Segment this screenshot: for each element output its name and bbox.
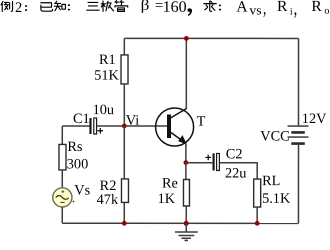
node R2 bottom junction [122, 221, 127, 226]
wire emitter to junction [185, 144, 187, 163]
svg-text:5.1K: 5.1K [262, 191, 291, 207]
svg-text:22u: 22u [225, 166, 246, 182]
svg-text:10u: 10u [93, 102, 114, 118]
wire VCC branch top [297, 38, 299, 125]
svg-text:160: 160 [163, 0, 187, 16]
svg-text:Re: Re [162, 175, 178, 191]
resistor R1 [121, 55, 128, 84]
svg-text:47k: 47k [97, 192, 119, 208]
wire base [124, 125, 167, 127]
title comma 1 [187, 8, 192, 16]
wire RL bottom [256, 207, 258, 223]
svg-text:T: T [197, 114, 206, 130]
node top junction [184, 36, 189, 41]
label C2 plus sign [205, 155, 211, 161]
wire Re bottom [185, 206, 187, 223]
node emitter junction [183, 160, 188, 165]
wire R1 branch top [123, 38, 125, 55]
capacitor C2 [214, 153, 220, 170]
capacitor C1 [90, 118, 96, 134]
wire R1 to Vi node [123, 84, 125, 126]
svg-text:2: 2 [15, 0, 22, 16]
svg-text:R: R [277, 0, 288, 15]
wire Re branch top [185, 163, 187, 180]
svg-text:R: R [311, 0, 322, 15]
title char 极 [101, 1, 113, 11]
title char 管 [115, 1, 128, 12]
svg-text:C1: C1 [73, 111, 90, 127]
wire bottom rail [62, 222, 298, 224]
svg-text:51K: 51K [94, 68, 119, 84]
svg-text:vs: vs [249, 2, 261, 17]
wire input row: corner to C1 [62, 125, 89, 127]
battery VCC [287, 126, 308, 144]
svg-text:C2: C2 [226, 146, 243, 162]
svg-text:A: A [236, 0, 248, 16]
svg-text:R1: R1 [99, 52, 116, 68]
node Vi junction [122, 124, 127, 129]
svg-text:o: o [324, 6, 329, 17]
svg-text:,: , [294, 0, 298, 20]
wire R2 branch top [123, 126, 125, 179]
resistor Re [183, 180, 189, 207]
node ground junction [184, 221, 189, 226]
svg-text:β: β [141, 0, 150, 14]
source Vs [53, 188, 72, 207]
label Vs dot [73, 201, 75, 203]
resistor Rs [59, 144, 66, 170]
title colon 3 [219, 4, 221, 6]
wire R2 bottom [123, 202, 125, 223]
label C1 plus sign [97, 128, 103, 134]
ground [175, 223, 198, 240]
wire Vs to bottom rail [61, 207, 63, 223]
title colon 2 [68, 4, 70, 6]
svg-text:RL: RL [262, 173, 280, 189]
svg-text:VCC: VCC [260, 129, 289, 145]
svg-text:,: , [263, 0, 266, 19]
wire Rs to Vs [61, 170, 63, 188]
title char 三 [87, 2, 99, 10]
title colon 1 [25, 5, 27, 7]
wire emitter junction to C2 [186, 162, 212, 164]
wire C2 to RL corner [219, 163, 257, 179]
svg-text:300: 300 [67, 156, 88, 172]
title char 例 [1, 1, 13, 11]
resistor R2 [121, 179, 128, 203]
title char 求 [204, 1, 216, 11]
wire C1 to Vi node [97, 125, 125, 127]
svg-text:Vs: Vs [74, 182, 90, 198]
node RL bottom junction [255, 221, 260, 226]
wire top rail [124, 37, 298, 39]
wire Rs branch top [61, 126, 63, 145]
wire collector [185, 38, 187, 109]
transistor T [156, 108, 194, 146]
svg-text:12V: 12V [302, 111, 327, 127]
svg-text:1K: 1K [158, 191, 176, 207]
wire battery to bottom rail [297, 145, 299, 224]
svg-text:i: i [290, 7, 293, 18]
resistor RL [254, 179, 261, 207]
svg-text:Rs: Rs [67, 139, 83, 155]
title char 已 [41, 3, 53, 11]
title char 知 [54, 1, 65, 11]
